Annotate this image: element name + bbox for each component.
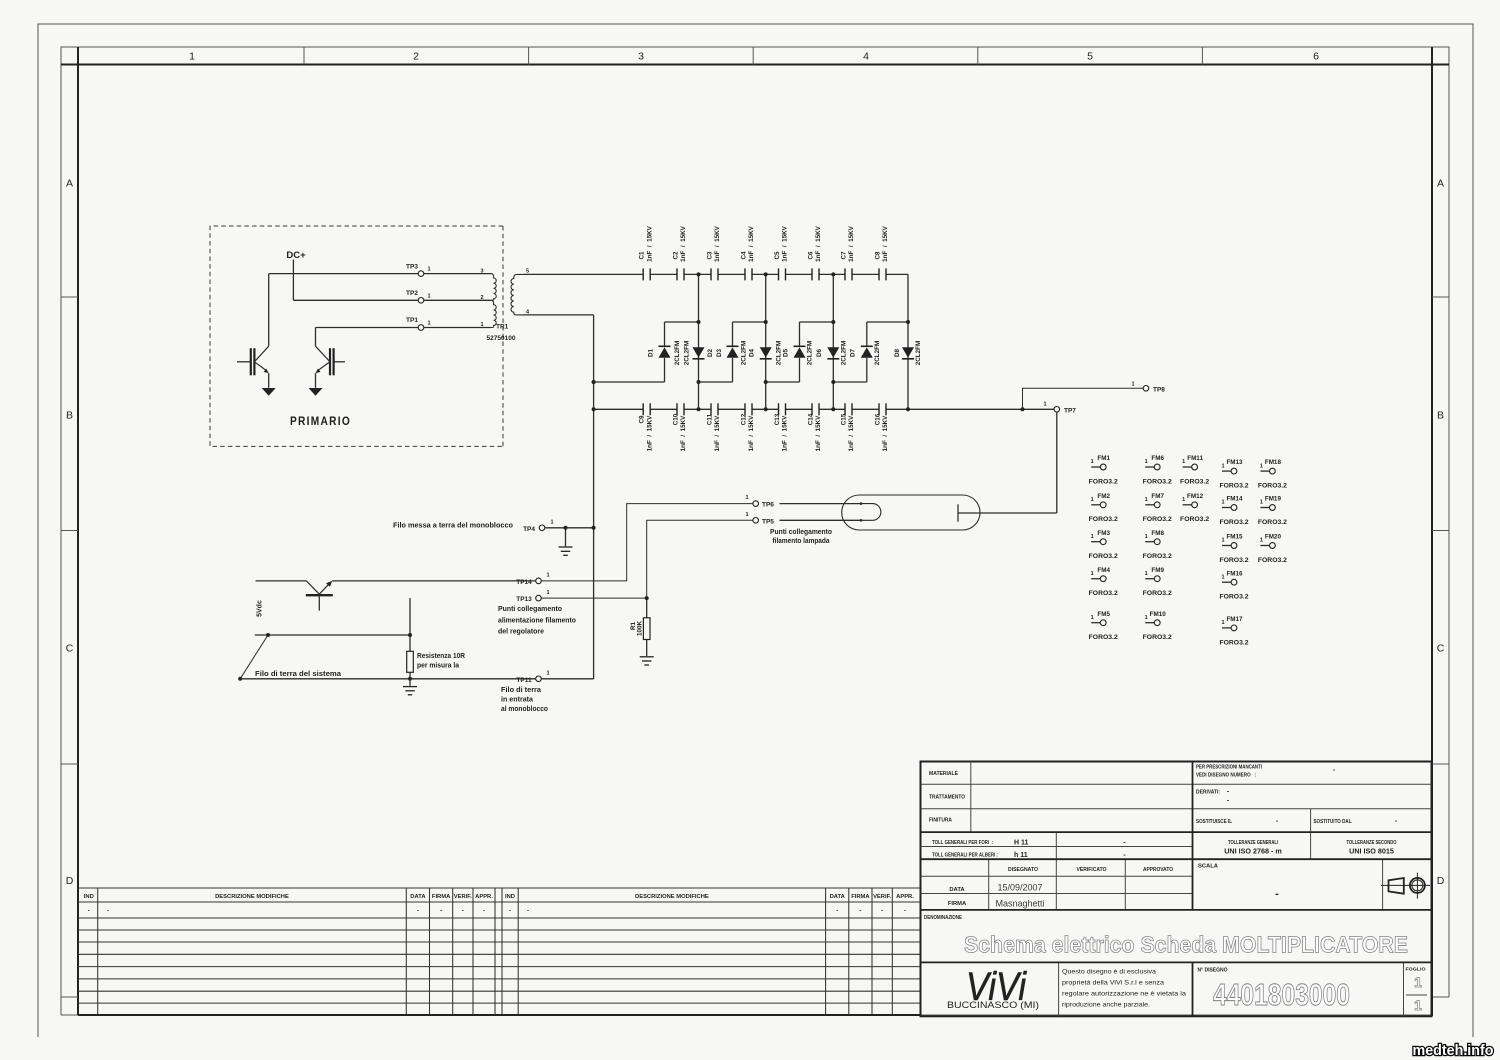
svg-text:D3: D3: [716, 348, 723, 357]
svg-text:-: -: [462, 908, 464, 914]
capacitor C5 1nF/15KV: [774, 225, 789, 280]
wire bottom rail: [594, 408, 644, 410]
svg-text:2CL2FM: 2CL2FM: [841, 341, 848, 366]
svg-text:-: -: [527, 908, 529, 914]
svg-text:DESCRIZIONE MODIFICHE: DESCRIZIONE MODIFICHE: [215, 894, 289, 900]
transformer TR1 primary winding lower (pins 2-1): [491, 300, 496, 327]
svg-text:FIRMA: FIRMA: [948, 901, 967, 907]
svg-text:Schema elettrico Scheda MOLTIP: Schema elettrico Scheda MOLTIPLICATORE: [964, 932, 1408, 958]
svg-text:C3: C3: [706, 251, 713, 260]
svg-text:1: 1: [1221, 463, 1224, 469]
wire diagonal to system ground line: [240, 635, 268, 679]
svg-text:TP2: TP2: [406, 290, 418, 297]
svg-text:MATERIALE: MATERIALE: [929, 771, 958, 777]
wire IGBT1 collector: [268, 274, 270, 347]
svg-text:N° DISEGNO: N° DISEGNO: [1198, 968, 1228, 974]
svg-text:-: -: [509, 908, 511, 914]
svg-text:VERIFICATO: VERIFICATO: [1077, 867, 1107, 873]
capacitor C14 1nF/15KV: [807, 403, 822, 451]
ground below 10R: [409, 679, 411, 686]
svg-text:C: C: [1437, 643, 1445, 655]
PRIMARIO dashed enclosure: [210, 226, 503, 446]
ground at TP4: [565, 528, 567, 547]
mounting hole FM20 FORO3.2: [1258, 534, 1287, 564]
column band dividers: [303, 47, 305, 65]
svg-text:1: 1: [1260, 463, 1263, 469]
mounting hole FM16 FORO3.2: [1219, 570, 1248, 600]
svg-text:FM15: FM15: [1226, 534, 1243, 541]
svg-text:1: 1: [1221, 574, 1224, 580]
mounting hole FM18 FORO3.2: [1258, 459, 1287, 489]
svg-text:APPR.: APPR.: [896, 894, 914, 900]
svg-text:TP6: TP6: [762, 502, 774, 509]
svg-text:1nF / 15KV: 1nF / 15KV: [882, 225, 889, 261]
mounting hole FM17 FORO3.2: [1219, 616, 1248, 646]
svg-text:FOGLIO: FOGLIO: [1406, 967, 1426, 973]
wire top rail from secondary pin 5: [524, 273, 643, 275]
svg-text:TRATTAMENTO: TRATTAMENTO: [929, 795, 965, 801]
wire to TP8: [1023, 388, 1144, 409]
svg-text:FORO3.2: FORO3.2: [1258, 483, 1287, 490]
svg-text:5: 5: [1087, 51, 1093, 63]
mounting hole FM2 FORO3.2: [1089, 493, 1118, 523]
svg-text:1nF / 15KV: 1nF / 15KV: [848, 225, 855, 261]
svg-text:1nF / 15KV: 1nF / 15KV: [782, 415, 789, 451]
svg-text:FM8: FM8: [1151, 530, 1164, 537]
svg-text:in entrata: in entrata: [501, 697, 533, 704]
IGBT gate bars: [333, 348, 335, 375]
node junction TP8 branch: [1021, 407, 1025, 411]
wire TP14 to TP6: [541, 504, 753, 581]
capacitor C3 1nF/15KV: [706, 225, 721, 280]
svg-text:TP1: TP1: [406, 317, 418, 324]
title block outline: [921, 762, 1432, 1017]
wire TP11 row: [240, 678, 536, 680]
svg-text:B: B: [66, 410, 73, 422]
svg-text:TR1: TR1: [496, 324, 509, 331]
capacitor C15 1nF/15KV: [840, 403, 855, 451]
svg-text:Punti collegamento: Punti collegamento: [498, 606, 562, 613]
svg-text:2CL2FM: 2CL2FM: [915, 341, 922, 366]
svg-text:1: 1: [1043, 401, 1046, 407]
svg-text:1: 1: [1145, 497, 1148, 503]
svg-text:1nF / 15KV: 1nF / 15KV: [646, 225, 653, 261]
svg-text:FM16: FM16: [1226, 570, 1243, 577]
svg-text:DC+: DC+: [286, 250, 306, 261]
svg-text:2CL2FM: 2CL2FM: [807, 341, 814, 366]
wire D3 cathode jog to column: [733, 321, 766, 323]
diode D6 2CL2FM: [816, 341, 848, 366]
IGBT gate lead: [237, 361, 251, 363]
svg-text:1: 1: [1221, 500, 1224, 506]
svg-text:C10: C10: [672, 413, 679, 425]
svg-text:D6: D6: [816, 348, 823, 357]
svg-text:1: 1: [1131, 381, 1134, 387]
svg-text:FORO3.2: FORO3.2: [1219, 639, 1248, 646]
svg-text:D7: D7: [850, 348, 857, 357]
svg-text:FM11: FM11: [1187, 455, 1203, 462]
svg-text:1: 1: [1260, 538, 1263, 544]
svg-text:1: 1: [480, 322, 483, 328]
svg-text:1: 1: [1091, 459, 1094, 465]
svg-text:SOSTITUISCE IL: SOSTITUISCE IL: [1196, 819, 1233, 825]
svg-text:D2: D2: [707, 348, 714, 357]
svg-text:FORO3.2: FORO3.2: [1219, 594, 1248, 601]
diode D5 2CL2FM: [783, 322, 814, 382]
svg-text:1nF / 15KV: 1nF / 15KV: [680, 415, 687, 451]
svg-text:IND: IND: [84, 894, 94, 900]
svg-text:1nF / 15KV: 1nF / 15KV: [882, 415, 889, 451]
svg-text:FM7: FM7: [1151, 493, 1164, 500]
svg-text:C4: C4: [740, 251, 747, 260]
mounting hole FM11 FORO3.2: [1180, 455, 1209, 485]
svg-text:1nF / 15KV: 1nF / 15KV: [815, 225, 822, 261]
svg-text:FM17: FM17: [1226, 616, 1243, 623]
svg-text:-: -: [881, 908, 883, 914]
capacitor C1 1nF/15KV: [639, 225, 654, 280]
svg-text:1nF / 15KV: 1nF / 15KV: [714, 415, 721, 451]
svg-text:-: -: [904, 908, 906, 914]
svg-text:C11: C11: [706, 413, 713, 425]
mounting hole FM8 FORO3.2: [1143, 530, 1172, 560]
wire D5 anode jog: [766, 381, 800, 383]
wire TP13 branch down x410: [409, 598, 411, 651]
svg-text:SOSTITUITO DAL: SOSTITUITO DAL: [1314, 819, 1353, 825]
test point TP1: [418, 325, 424, 331]
svg-text:1: 1: [1221, 538, 1224, 544]
svg-text:BUCCINASCO (MI): BUCCINASCO (MI): [947, 1000, 1039, 1010]
IGBT emitter lead: [315, 373, 317, 388]
svg-text:D5: D5: [783, 348, 790, 357]
test point TP7: [1054, 407, 1060, 413]
resistor 10R: [407, 651, 414, 672]
svg-text:TP4: TP4: [523, 526, 535, 533]
svg-text:1: 1: [546, 671, 549, 677]
svg-text:TP7: TP7: [1064, 407, 1076, 414]
svg-text:FM13: FM13: [1226, 459, 1243, 466]
svg-text:1: 1: [550, 520, 553, 526]
svg-text:1nF / 15KV: 1nF / 15KV: [646, 415, 653, 451]
svg-text:Masnaghetti: Masnaghetti: [995, 899, 1044, 909]
IGBT gate bars: [250, 348, 252, 375]
test point TP11: [536, 676, 542, 682]
svg-text:15/09/2007: 15/09/2007: [997, 883, 1042, 893]
svg-text:100K: 100K: [637, 621, 644, 637]
svg-text:FM20: FM20: [1265, 534, 1282, 541]
svg-text:1: 1: [1091, 534, 1094, 540]
svg-text:C15: C15: [840, 413, 847, 425]
svg-text:DESCRIZIONE MODIFICHE: DESCRIZIONE MODIFICHE: [635, 894, 709, 900]
svg-text:1: 1: [1221, 620, 1224, 626]
svg-text:DENOMINAZIONE: DENOMINAZIONE: [924, 915, 962, 921]
svg-text:APPROVATO: APPROVATO: [1143, 867, 1173, 873]
svg-text:FM12: FM12: [1187, 493, 1204, 500]
svg-text:APPR.: APPR.: [475, 894, 493, 900]
mounting hole FM3 FORO3.2: [1089, 530, 1118, 560]
svg-text:FM3: FM3: [1097, 530, 1110, 537]
lamp anode electrode: [957, 504, 959, 521]
svg-text:TOLL GENERALI PER ALBERI :: TOLL GENERALI PER ALBERI :: [932, 853, 998, 859]
svg-text:medteh.info: medteh.info: [1413, 1042, 1494, 1059]
down-arrow (to secondary side): [309, 388, 323, 396]
wire 5V row: [255, 634, 410, 636]
svg-text:del regolatore: del regolatore: [498, 629, 544, 636]
wire from pin 4 down the left bus: [524, 314, 594, 316]
svg-text:-: -: [88, 908, 90, 914]
lamp envelope: [842, 495, 980, 530]
svg-text:1: 1: [1182, 459, 1185, 465]
svg-text:DATA: DATA: [410, 894, 426, 900]
svg-text:C6: C6: [807, 251, 814, 260]
svg-text:D4: D4: [749, 348, 756, 357]
mounting hole FM9 FORO3.2: [1143, 567, 1172, 597]
svg-text:proprietà della ViVi S.r.l e s: proprietà della ViVi S.r.l e senza: [1062, 980, 1164, 987]
svg-text:DERIVATI:: DERIVATI:: [1196, 790, 1220, 796]
svg-text:1: 1: [1091, 615, 1094, 621]
svg-text:FORO3.2: FORO3.2: [1143, 553, 1172, 560]
test point TP14: [536, 578, 542, 584]
row band dividers left: [61, 296, 78, 298]
svg-text:IND: IND: [505, 894, 515, 900]
svg-text:FORO3.2: FORO3.2: [1219, 519, 1248, 526]
wire TP5 filament lead: [780, 519, 862, 521]
wire D7 cathode jog to column: [867, 321, 908, 323]
svg-text:1: 1: [1145, 615, 1148, 621]
wire ladder vertical columns: [698, 274, 700, 409]
svg-text:-: -: [1275, 888, 1279, 900]
svg-text:FM9: FM9: [1151, 567, 1164, 574]
svg-text:1nF / 15KV: 1nF / 15KV: [848, 415, 855, 451]
down-arrow (to secondary side): [262, 388, 276, 396]
mounting hole FM19 FORO3.2: [1258, 496, 1287, 526]
test point TP2: [418, 298, 424, 304]
svg-text:1nF / 15KV: 1nF / 15KV: [714, 225, 721, 261]
lamp filament: [861, 504, 881, 521]
wire TP1 row: [316, 327, 419, 329]
svg-text:SCALA: SCALA: [1198, 864, 1219, 870]
svg-text:A: A: [1437, 178, 1444, 190]
svg-text:C16: C16: [874, 413, 881, 425]
capacitor C13 1nF/15KV: [774, 403, 789, 451]
svg-text:FINITURA: FINITURA: [929, 818, 953, 824]
svg-text:FORO3.2: FORO3.2: [1143, 634, 1172, 641]
svg-text:1: 1: [1414, 974, 1422, 990]
svg-text:DISEGNATO: DISEGNATO: [1008, 867, 1038, 873]
junction dots on rails: [697, 272, 701, 276]
svg-text:C14: C14: [807, 413, 814, 425]
capacitor C10 1nF/15KV: [672, 403, 687, 451]
wire TP6 filament lead: [780, 503, 862, 505]
svg-text:per misura la: per misura la: [417, 663, 459, 670]
svg-text:FORO3.2: FORO3.2: [1180, 478, 1209, 485]
mounting hole FM13 FORO3.2: [1219, 459, 1248, 489]
mounting hole FM7 FORO3.2: [1143, 493, 1172, 523]
svg-text:FORO3.2: FORO3.2: [1143, 516, 1172, 523]
svg-text:1: 1: [1145, 459, 1148, 465]
svg-text:TP8: TP8: [1153, 386, 1165, 393]
svg-text:C8: C8: [874, 251, 881, 260]
svg-text:-: -: [483, 908, 485, 914]
svg-text:-: -: [859, 908, 861, 914]
test point TP8: [1143, 386, 1149, 392]
svg-text:2CL2FM: 2CL2FM: [776, 341, 783, 366]
svg-text:FORO3.2: FORO3.2: [1089, 553, 1118, 560]
resistor R1 100K: [630, 598, 650, 656]
svg-text:1: 1: [1145, 571, 1148, 577]
svg-text:1: 1: [546, 590, 549, 596]
svg-text:FORO3.2: FORO3.2: [1258, 557, 1287, 564]
svg-text:A: A: [66, 178, 73, 190]
svg-text:riproduzione anche parziale.: riproduzione anche parziale.: [1062, 1002, 1150, 1009]
svg-text:1: 1: [189, 51, 195, 63]
wire TP3 row: [269, 273, 418, 275]
svg-text:Punti collegamento: Punti collegamento: [770, 529, 832, 536]
svg-text:1: 1: [427, 293, 430, 299]
mounting hole FM12 FORO3.2: [1180, 493, 1209, 523]
svg-text:Questo disegno è di esclusiva: Questo disegno è di esclusiva: [1062, 969, 1156, 976]
svg-text:FORO3.2: FORO3.2: [1219, 483, 1248, 490]
svg-text:1: 1: [1260, 500, 1263, 506]
mounting hole FM15 FORO3.2: [1219, 534, 1248, 564]
svg-text:1: 1: [546, 573, 549, 579]
svg-text:D8: D8: [894, 348, 901, 357]
svg-text:VERIF.: VERIF.: [873, 894, 891, 900]
IGBT emitter diagonal with arrow: [254, 362, 266, 371]
test point TP4: [539, 525, 545, 531]
wire TP7 to lamp anode: [1056, 412, 1058, 513]
svg-text:C5: C5: [774, 251, 781, 260]
diode D4 2CL2FM: [749, 341, 783, 366]
svg-text:FORO3.2: FORO3.2: [1089, 634, 1118, 641]
svg-text:1: 1: [427, 267, 430, 273]
svg-text:52750100: 52750100: [487, 335, 516, 342]
svg-text:TOLLERANZE SECONDO: TOLLERANZE SECONDO: [1347, 840, 1397, 846]
svg-text:h 11: h 11: [1014, 852, 1028, 859]
wire TP4 to bus: [545, 527, 594, 529]
svg-text:TOLL GENERALI PER FORI :: TOLL GENERALI PER FORI :: [932, 840, 993, 846]
transistor Q1 (IGBT left): [237, 346, 276, 396]
svg-text:-: -: [417, 908, 419, 914]
wire D5 cathode jog to column: [800, 321, 834, 323]
wire D7 anode jog: [833, 381, 867, 383]
diode D2 2CL2FM: [684, 341, 715, 366]
svg-text:1: 1: [745, 512, 748, 518]
test point TP6: [753, 501, 759, 507]
svg-text:Resistenza 10R: Resistenza 10R: [417, 653, 465, 660]
svg-text:FM14: FM14: [1226, 496, 1243, 503]
svg-text:FORO3.2: FORO3.2: [1143, 590, 1172, 597]
svg-text:D1: D1: [648, 348, 655, 357]
svg-text:PRIMARIO: PRIMARIO: [290, 414, 351, 428]
junction dot at TP4 ground stub: [564, 526, 568, 530]
svg-text:1: 1: [1091, 497, 1094, 503]
diode D8 2CL2FM: [894, 341, 922, 366]
svg-text:FM19: FM19: [1265, 496, 1282, 503]
svg-text:4401803000: 4401803000: [1213, 977, 1350, 1012]
svg-text:TP5: TP5: [762, 518, 774, 525]
svg-text:Filo di terra del sistema: Filo di terra del sistema: [255, 671, 341, 678]
svg-text:FIRMA: FIRMA: [851, 894, 870, 900]
wire lamp anode out: [958, 512, 1057, 514]
svg-text:1nF / 15KV: 1nF / 15KV: [748, 415, 755, 451]
capacitor C12 1nF/15KV: [740, 403, 755, 451]
wire IGBT2 collector: [315, 328, 317, 347]
capacitor C7 1nF/15KV: [840, 225, 855, 280]
svg-text:H 11: H 11: [1014, 840, 1029, 847]
svg-text:1: 1: [1145, 534, 1148, 540]
svg-text:FORO3.2: FORO3.2: [1258, 519, 1287, 526]
svg-text:C1: C1: [639, 251, 646, 260]
IGBT emitter diagonal with arrow: [318, 362, 330, 371]
svg-text:D: D: [66, 875, 74, 887]
svg-text:C: C: [66, 643, 74, 655]
wire TP14 row with transistor: [256, 580, 307, 582]
capacitor C8 1nF/15KV: [874, 225, 889, 280]
svg-text:1: 1: [745, 495, 748, 501]
capacitor C4 1nF/15KV: [740, 225, 755, 280]
test point TP3: [418, 271, 424, 277]
revision table: [78, 888, 921, 1015]
mounting hole FM5 FORO3.2: [1089, 611, 1118, 641]
svg-text:FORO3.2: FORO3.2: [1089, 478, 1118, 485]
svg-text:1nF / 15KV: 1nF / 15KV: [680, 225, 687, 261]
svg-text:1: 1: [1414, 997, 1422, 1013]
svg-text:DATA: DATA: [949, 887, 965, 893]
svg-text:2CL2FM: 2CL2FM: [741, 341, 748, 366]
transistor Q2 (IGBT right): [309, 346, 346, 396]
wire TP13 to TP5: [541, 520, 753, 598]
projection symbol: [1381, 873, 1430, 899]
svg-text:FORO3.2: FORO3.2: [1089, 516, 1118, 523]
svg-text:al monoblocco: al monoblocco: [501, 706, 548, 713]
svg-text:2CL2FM: 2CL2FM: [684, 341, 691, 366]
mounting hole FM4 FORO3.2: [1089, 567, 1118, 597]
svg-text:-: -: [440, 908, 442, 914]
row band dividers right: [1432, 296, 1449, 298]
wire D1 anode jog: [594, 381, 665, 383]
diode D3 2CL2FM: [716, 322, 748, 382]
IGBT collector diagonal: [254, 346, 268, 362]
capacitor C11 1nF/15KV: [706, 403, 721, 451]
mounting hole FM6 FORO3.2: [1143, 455, 1172, 485]
svg-text:FORO3.2: FORO3.2: [1143, 478, 1172, 485]
svg-text:2: 2: [480, 295, 483, 301]
capacitor C6 1nF/15KV: [807, 225, 822, 280]
svg-text:2CL2FM: 2CL2FM: [874, 341, 881, 366]
transformer TR1 primary winding upper (pins 3-2): [491, 274, 496, 301]
svg-text:filamento lampada: filamento lampada: [773, 538, 830, 545]
svg-text:6: 6: [1313, 51, 1319, 63]
wire DC+ to TP2 row: [292, 260, 294, 301]
svg-text:FORO3.2: FORO3.2: [1089, 590, 1118, 597]
svg-text:5Vdc: 5Vdc: [256, 600, 263, 617]
capacitor C9 1nF/15KV: [639, 403, 654, 451]
IGBT gate lead: [334, 361, 345, 363]
svg-text:FM6: FM6: [1151, 455, 1164, 462]
mounting hole FM10 FORO3.2: [1143, 611, 1172, 641]
svg-text:5: 5: [526, 269, 529, 275]
svg-text:2CL2FM: 2CL2FM: [674, 341, 681, 366]
svg-text:1nF / 15KV: 1nF / 15KV: [782, 225, 789, 261]
svg-text:TP11: TP11: [516, 677, 532, 684]
wire D1 cathode jog to column: [665, 321, 699, 323]
svg-text:C7: C7: [840, 251, 847, 260]
svg-text:2: 2: [413, 51, 419, 63]
svg-text:TP3: TP3: [406, 263, 418, 270]
diode D1 2CL2FM: [648, 322, 682, 382]
svg-text:VERIF.: VERIF.: [454, 894, 472, 900]
wire TP2 row: [293, 299, 418, 301]
